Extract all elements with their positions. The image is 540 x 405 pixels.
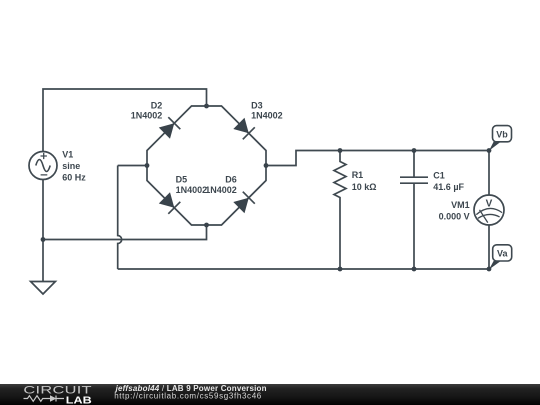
svg-text:Vb: Vb — [496, 129, 508, 139]
svg-text:10 kΩ: 10 kΩ — [352, 182, 377, 192]
svg-text:1N4002: 1N4002 — [251, 110, 283, 120]
svg-text:D2: D2 — [151, 100, 163, 110]
svg-text:CIRCUIT: CIRCUIT — [23, 383, 92, 396]
svg-text:http://circuitlab.com/cs59sg3f: http://circuitlab.com/cs59sg3fh3c46 — [114, 392, 262, 401]
svg-text:1N4002: 1N4002 — [131, 110, 163, 120]
svg-text:41.6 µF: 41.6 µF — [433, 182, 464, 192]
svg-text:1N4002: 1N4002 — [205, 185, 237, 195]
svg-text:1N4002: 1N4002 — [176, 185, 208, 195]
svg-text:sine: sine — [62, 161, 80, 171]
svg-text:V1: V1 — [62, 150, 73, 160]
svg-text:LAB: LAB — [66, 396, 92, 405]
svg-text:Va: Va — [497, 249, 509, 259]
svg-text:D6: D6 — [225, 174, 237, 184]
svg-text:VM1: VM1 — [451, 200, 470, 210]
svg-text:R1: R1 — [352, 170, 364, 180]
svg-text:C1: C1 — [433, 170, 445, 180]
svg-text:0.000 V: 0.000 V — [439, 211, 470, 221]
svg-text:D3: D3 — [251, 100, 263, 110]
svg-text:60 Hz: 60 Hz — [62, 172, 86, 182]
svg-text:D5: D5 — [176, 174, 188, 184]
